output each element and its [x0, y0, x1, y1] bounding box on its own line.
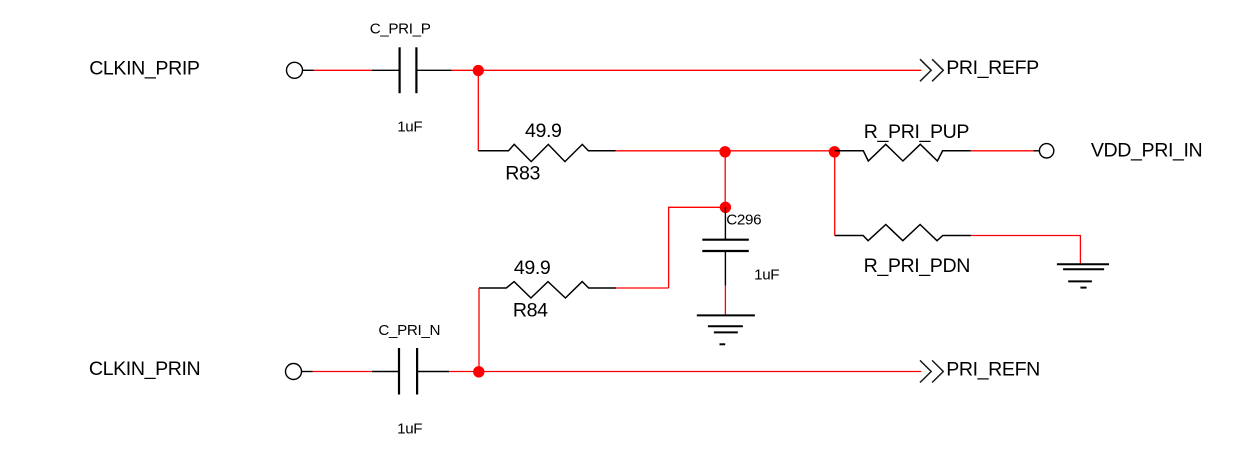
off-page connector PRI_REFP — [920, 59, 943, 81]
svg-text:1uF: 1uF — [397, 119, 422, 136]
svg-text:VDD_PRI_IN: VDD_PRI_IN — [1091, 140, 1202, 162]
wire R84 to C296 node (horizontal) — [616, 287, 668, 289]
resistor R_PRI_PDN — [835, 225, 971, 241]
pin stub right of C_PRI_N — [417, 371, 449, 373]
svg-text:R_PRI_PDN: R_PRI_PDN — [864, 255, 970, 277]
wire CLKIN_PRIN to C_PRI_N — [313, 371, 373, 373]
svg-text:PRI_REFP: PRI_REFP — [946, 57, 1039, 79]
off-page connector PRI_REFN — [920, 360, 943, 382]
svg-text:R83: R83 — [505, 163, 540, 185]
pin stub from terminal CLKIN_PRIN — [302, 371, 313, 373]
svg-text:R84: R84 — [513, 299, 548, 321]
svg-text:CLKIN_PRIP: CLKIN_PRIP — [89, 57, 200, 79]
svg-text:49.9: 49.9 — [514, 257, 551, 279]
wire CLKIN_PRIP to C_PRI_P — [314, 69, 372, 71]
pin stub into VDD terminal — [1033, 150, 1039, 152]
wire junction down to C296 node — [724, 152, 726, 208]
junction node top (C_PRI_P / R83) — [473, 65, 484, 76]
svg-text:1uF: 1uF — [754, 267, 779, 284]
resistor R84 — [479, 282, 616, 298]
resistor R_PRI_PUP — [835, 144, 971, 161]
pin stub C296 bottom — [724, 251, 726, 286]
wire junction2 down to R_PRI_PDN — [834, 152, 836, 236]
svg-text:C_PRI_P: C_PRI_P — [370, 20, 431, 37]
terminal circle CLKIN_PRIN — [286, 364, 302, 380]
pin stub C296 top — [724, 207, 726, 239]
wire R84 output up to C296 node — [669, 207, 726, 288]
wire junction down to R83 — [477, 71, 479, 151]
terminal circle VDD_PRI_IN — [1039, 144, 1053, 158]
wire R84 down to bottom junction — [478, 288, 480, 372]
svg-text:1uF: 1uF — [397, 420, 422, 437]
svg-text:49.9: 49.9 — [525, 120, 562, 142]
capacitor C296 — [702, 240, 749, 251]
svg-text:PRI_REFN: PRI_REFN — [946, 358, 1040, 380]
ground right of R_PRI_PDN — [1057, 264, 1109, 287]
svg-text:CLKIN_PRIN: CLKIN_PRIN — [89, 358, 200, 380]
capacitor C_PRI_N — [399, 348, 417, 395]
junction node bottom (C_PRI_N / R84) — [473, 366, 484, 377]
junction node row2 left (C296 tap) — [719, 146, 730, 157]
svg-text:C_PRI_N: C_PRI_N — [378, 322, 440, 339]
wire C296 to ground — [724, 286, 726, 315]
wire R_PRI_PDN to ground — [971, 236, 1081, 264]
svg-text:C296: C296 — [726, 212, 761, 229]
capacitor C_PRI_P — [400, 47, 417, 93]
wire C_PRI_P to PRI_REFP — [452, 69, 922, 71]
ground below C296 — [697, 315, 755, 344]
pin stub left of C_PRI_N — [372, 371, 399, 373]
wire R_PRI_PUP to VDD terminal — [971, 150, 1034, 152]
wire C_PRI_N to PRI_REFN — [449, 371, 921, 373]
pin stub from terminal — [303, 69, 314, 71]
terminal circle CLKIN_PRIP — [287, 62, 303, 78]
resistor R83 — [478, 144, 616, 161]
pin stub right of C_PRI_P — [416, 69, 451, 71]
pin stub left of C_PRI_P — [372, 69, 400, 71]
svg-text:R_PRI_PUP: R_PRI_PUP — [864, 121, 970, 143]
junction node C296 top — [720, 202, 731, 213]
wire R83 to junctions row — [616, 150, 835, 152]
junction node row2 right (R_PRI_PUP / R_PRI_PDN) — [829, 146, 840, 157]
